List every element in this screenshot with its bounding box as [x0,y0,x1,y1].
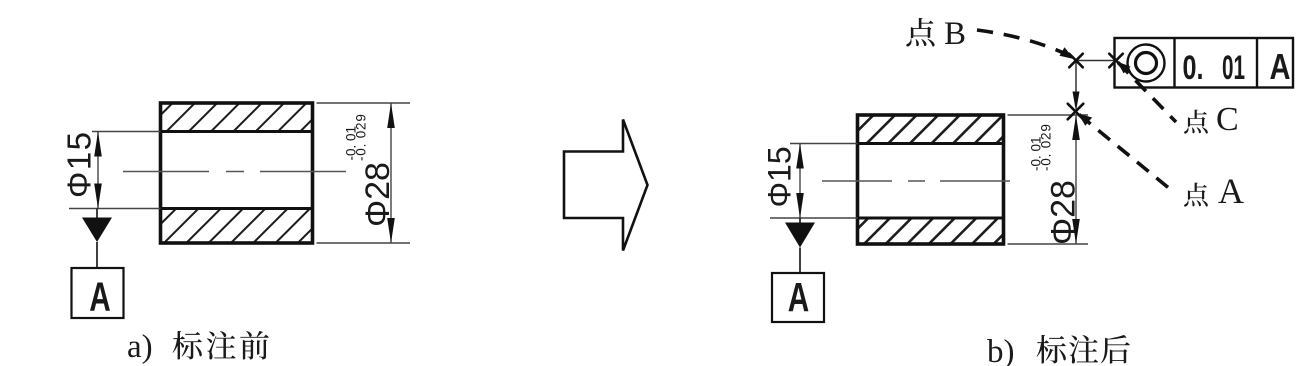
point mark C (frame attachment) [1109,54,1123,68]
section view b: outline rectangle [858,115,1004,244]
point mark A (dimension line) [1068,104,1084,120]
callout dian C: dashed leader [1118,63,1176,123]
svg-text:A: A [1218,171,1244,211]
section view a: hatch bottom band [142,209,333,244]
callout dian B: dashed leader [977,30,1068,55]
svg-text:B: B [944,16,966,52]
svg-text:A: A [788,274,810,320]
svg-text:Φ28: Φ28 [359,162,397,227]
svg-text:-0. 029: -0. 029 [1039,123,1054,171]
leader line from frame: horizontal segment [1076,60,1114,62]
datum symbol a: letter box A [72,268,124,318]
svg-text:a): a) [127,329,153,365]
svg-text:Φ15: Φ15 [762,146,798,207]
callout dian A: label [1184,183,1208,207]
callout dian B: label [906,18,934,47]
section view b: bore line bottom [858,217,1004,220]
datum symbol b: letter box A [772,273,824,322]
callout dian A: dashed leader [1079,115,1170,190]
leader line from frame: vertical segment with arrow [1075,61,1077,94]
block arrow between views [564,120,648,251]
section view b: bore line top [858,142,1004,145]
dimension phi15 b: extension lines [770,144,858,219]
dimension phi15 b: dimension line and arrows [799,144,801,219]
datum symbol b: connecting line [799,248,801,274]
feature control frame: outline [1115,38,1294,88]
callout dian C: label [1184,110,1208,134]
svg-text:A: A [1270,46,1291,87]
dimension phi15 a: extension lines [69,132,161,209]
datum symbol a: triangle [96,209,98,219]
section view a: centerline [123,171,349,173]
section view a: bore line bottom [161,207,313,210]
dimension phi28 a: extension lines [317,103,411,243]
section view b: hatch bottom band [842,218,1019,244]
datum symbol b: triangle [799,218,801,223]
svg-text:0.: 0. [1183,49,1204,87]
feature control frame: concentricity symbol [1128,45,1165,82]
svg-text:C: C [1216,101,1239,138]
svg-text:A: A [89,274,111,320]
section view a: hatch top band [144,103,329,132]
svg-text:b): b) [987,334,1015,366]
svg-text:01: 01 [1222,49,1245,87]
section view a: bore line top [161,130,313,133]
dimension phi15 a: dimension line and arrows [97,132,99,209]
section view a: outline rectangle [161,103,313,243]
dimension phi28 b: extension lines [1008,115,1089,244]
svg-text:Φ28: Φ28 [1045,180,1083,245]
svg-text:-0. 029: -0. 029 [354,113,369,161]
datum symbol a: connecting line [96,242,98,268]
dimension phi28 b: dimension line and arrows [1075,115,1077,244]
section view b: hatch top band [845,115,1025,144]
point mark B (bend of leader) [1069,54,1083,68]
section view b: centerline [822,180,1016,182]
dimension phi28 a: dimension line and arrows [390,103,392,243]
svg-text:Φ15: Φ15 [61,130,98,198]
